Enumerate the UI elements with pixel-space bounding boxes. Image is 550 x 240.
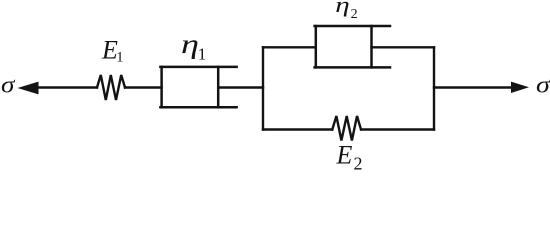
- svg-text:σ: σ: [1, 72, 16, 98]
- svg-text:η: η: [181, 28, 199, 59]
- svg-text:1: 1: [116, 50, 123, 66]
- svg-text:E: E: [336, 141, 353, 170]
- svg-text:2: 2: [351, 7, 358, 22]
- svg-text:η: η: [335, 0, 350, 17]
- svg-text:σ: σ: [536, 72, 550, 98]
- svg-text:1: 1: [198, 45, 207, 64]
- svg-text:2: 2: [354, 153, 363, 173]
